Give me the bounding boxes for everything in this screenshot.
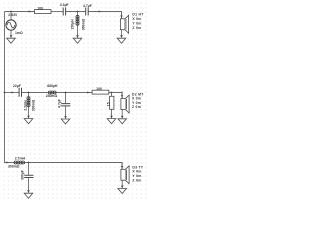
svg-text:Z 0m: Z 0m <box>132 178 141 182</box>
svg-text:150µH: 150µH <box>70 19 74 30</box>
svg-text:Z 0m: Z 0m <box>132 105 141 109</box>
svg-text:2.83V: 2.83V <box>8 13 18 17</box>
svg-text:300µF: 300µF <box>20 170 24 180</box>
svg-text:Y 0m: Y 0m <box>132 21 141 25</box>
svg-text:Z 0m: Z 0m <box>132 26 141 30</box>
svg-text:2.7mH: 2.7mH <box>15 156 26 160</box>
svg-text:4.7µF: 4.7µF <box>83 4 92 8</box>
svg-text:300mΩ: 300mΩ <box>8 164 20 168</box>
svg-text:240mΩ: 240mΩ <box>46 94 58 98</box>
svg-text:22µF: 22µF <box>13 84 21 88</box>
svg-text:4.7µF: 4.7µF <box>58 99 62 108</box>
svg-text:360mΩ: 360mΩ <box>81 18 85 30</box>
svg-text:1mΩ: 1mΩ <box>15 31 23 35</box>
svg-text:100: 100 <box>96 87 102 91</box>
svg-text:2.2mH: 2.2mH <box>24 100 28 111</box>
svg-text:3.3µF: 3.3µF <box>60 3 69 7</box>
svg-text:X 0m: X 0m <box>132 96 141 100</box>
svg-text:680µH: 680µH <box>47 84 58 88</box>
svg-text:15: 15 <box>106 102 110 106</box>
svg-text:100: 100 <box>37 6 43 10</box>
svg-text:X 0m: X 0m <box>132 17 141 21</box>
svg-text:330mΩ: 330mΩ <box>32 99 36 111</box>
